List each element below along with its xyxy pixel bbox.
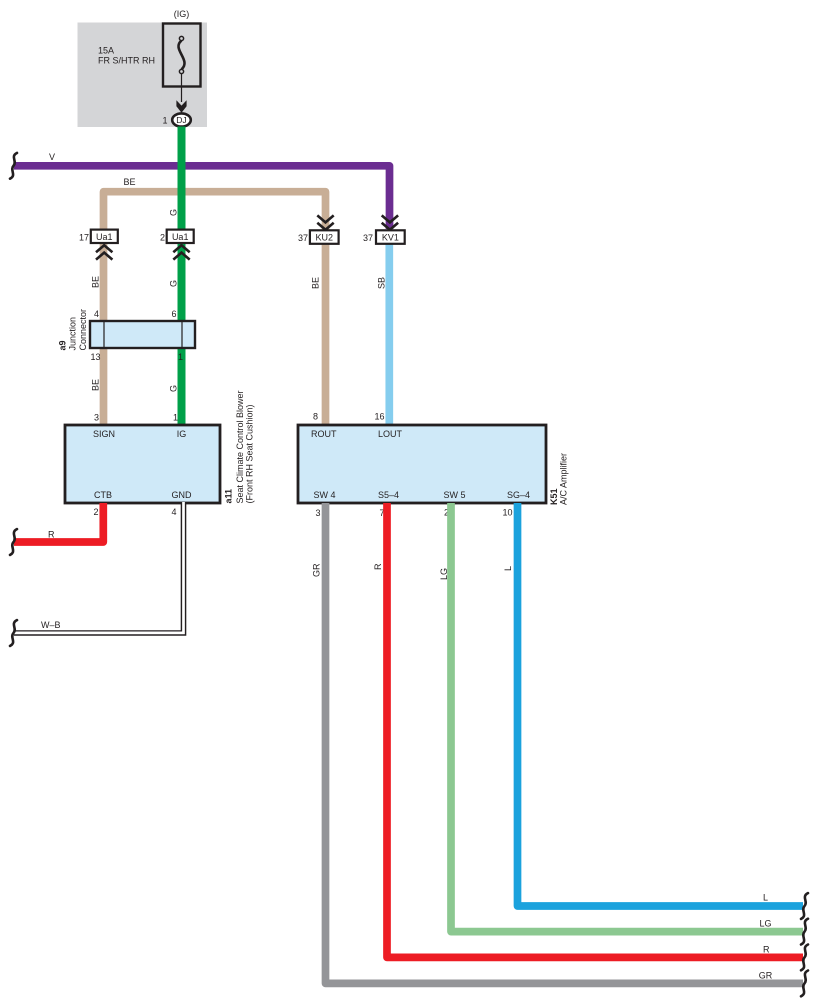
fuse box xyxy=(163,24,201,87)
svg-text:Seat Climate Control Blower: Seat Climate Control Blower xyxy=(235,390,245,503)
svg-text:BE: BE xyxy=(124,177,136,187)
svg-text:6: 6 xyxy=(171,309,176,319)
svg-text:LG: LG xyxy=(439,568,449,580)
break symbol LG right xyxy=(801,919,808,945)
svg-text:10: 10 xyxy=(502,508,512,518)
svg-text:V: V xyxy=(49,152,55,162)
svg-text:LOUT: LOUT xyxy=(378,429,403,439)
wire BE tan horizontal xyxy=(104,192,326,230)
wire fuse to DJ xyxy=(181,74,183,103)
svg-text:37: 37 xyxy=(298,233,308,243)
arrow into DJ xyxy=(176,100,186,113)
svg-text:2: 2 xyxy=(93,507,98,517)
svg-text:R: R xyxy=(763,945,770,955)
wire R red from CTB xyxy=(14,503,103,542)
svg-text:Ua1: Ua1 xyxy=(172,232,189,242)
connector 37 KV1 xyxy=(376,230,405,244)
a11 label xyxy=(224,390,255,503)
svg-text:L: L xyxy=(503,566,513,571)
component K51 A/C Amplifier xyxy=(298,425,546,503)
svg-text:FR S/HTR RH: FR S/HTR RH xyxy=(98,56,155,66)
svg-text:a11: a11 xyxy=(224,489,234,504)
wire V purple xyxy=(14,166,390,229)
K51 label xyxy=(549,453,569,505)
svg-text:L: L xyxy=(763,893,768,903)
chevrons below 17 Ua1 xyxy=(96,245,112,259)
svg-text:1: 1 xyxy=(173,413,178,423)
wire GR from SW 4 xyxy=(326,503,804,983)
break symbol R left xyxy=(10,529,17,555)
break symbol R right xyxy=(801,945,808,971)
svg-text:BE: BE xyxy=(91,379,101,391)
svg-text:KV1: KV1 xyxy=(382,233,399,243)
junction connector a9 xyxy=(90,321,195,348)
svg-text:G: G xyxy=(169,280,179,287)
svg-text:W–B: W–B xyxy=(41,620,61,630)
svg-text:KU2: KU2 xyxy=(316,233,334,243)
wire BE below Ua1 to a9 xyxy=(100,244,108,322)
svg-text:3: 3 xyxy=(94,413,99,423)
connector 2 Ua1 xyxy=(167,230,194,243)
a9 label xyxy=(57,309,88,351)
svg-text:13: 13 xyxy=(90,352,100,362)
wire SB below KV1 to K51 xyxy=(385,245,393,426)
svg-text:CTB: CTB xyxy=(94,490,112,500)
svg-text:R: R xyxy=(373,563,383,570)
chevrons below 2 Ua1 xyxy=(173,245,189,259)
break symbol W-B left xyxy=(10,620,17,646)
wire R from S5-4 xyxy=(387,503,803,957)
chevrons above 37 KV1 xyxy=(382,215,398,229)
svg-text:SW 4: SW 4 xyxy=(313,490,335,500)
component a11 Seat Climate Control Blower xyxy=(65,425,220,503)
svg-text:37: 37 xyxy=(363,233,373,243)
svg-text:4: 4 xyxy=(171,507,176,517)
svg-text:8: 8 xyxy=(313,412,318,422)
wire G green main vertical xyxy=(178,127,186,426)
relay block gray box xyxy=(78,23,208,128)
break symbol L right xyxy=(801,893,808,919)
svg-text:3: 3 xyxy=(315,508,320,518)
svg-text:(IG): (IG) xyxy=(174,9,190,19)
svg-text:K51: K51 xyxy=(549,488,559,505)
svg-text:DJ: DJ xyxy=(176,115,186,125)
connector 17 Ua1 xyxy=(91,230,118,243)
svg-text:16: 16 xyxy=(374,412,384,422)
svg-text:GR: GR xyxy=(312,563,322,577)
svg-text:GR: GR xyxy=(759,971,773,981)
wire BE a9 to a11 xyxy=(100,348,108,426)
svg-text:1: 1 xyxy=(178,352,183,362)
svg-text:R: R xyxy=(48,530,55,540)
wire W-B from GND xyxy=(14,503,184,633)
chevrons above 37 KU2 xyxy=(317,215,333,229)
wire L from SG-4 xyxy=(518,503,804,906)
svg-text:S5–4: S5–4 xyxy=(378,490,399,500)
svg-text:a9: a9 xyxy=(57,340,67,350)
svg-text:SW 5: SW 5 xyxy=(443,490,465,500)
svg-text:2: 2 xyxy=(160,233,165,243)
svg-text:(Front RH Seat Cushion): (Front RH Seat Cushion) xyxy=(245,404,255,503)
svg-text:G: G xyxy=(169,385,179,392)
svg-text:SIGN: SIGN xyxy=(93,429,115,439)
svg-text:IG: IG xyxy=(177,429,187,439)
svg-text:G: G xyxy=(169,209,179,216)
svg-text:Connector: Connector xyxy=(78,309,88,351)
break symbol GR right xyxy=(801,971,808,997)
svg-text:1: 1 xyxy=(162,116,167,126)
connector 37 KU2 xyxy=(310,230,339,244)
svg-text:SG–4: SG–4 xyxy=(507,490,530,500)
svg-text:BE: BE xyxy=(311,277,321,289)
svg-text:GND: GND xyxy=(172,490,193,500)
svg-text:15A: 15A xyxy=(98,46,114,56)
svg-text:Junction: Junction xyxy=(67,317,77,351)
break symbol V left xyxy=(10,153,17,179)
svg-text:LG: LG xyxy=(760,919,772,929)
svg-text:BE: BE xyxy=(91,276,101,288)
svg-text:ROUT: ROUT xyxy=(311,429,337,439)
svg-text:Ua1: Ua1 xyxy=(96,232,113,242)
wire BE below KU2 to K51 xyxy=(322,244,330,426)
svg-text:4: 4 xyxy=(94,309,99,319)
svg-text:SB: SB xyxy=(377,277,387,289)
svg-text:A/C Amplifier: A/C Amplifier xyxy=(559,453,569,505)
svg-text:17: 17 xyxy=(79,233,89,243)
wire LG from SW 5 xyxy=(451,503,803,932)
fuse element xyxy=(179,36,183,40)
node 1 DJ xyxy=(172,113,191,126)
